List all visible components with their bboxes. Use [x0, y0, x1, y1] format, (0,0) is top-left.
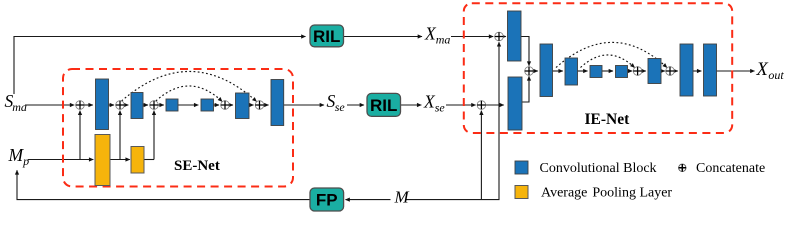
svg-text:RIL: RIL [370, 96, 397, 115]
svg-text:Sse: Sse [327, 91, 346, 114]
svg-text:SE-Net: SE-Net [174, 158, 220, 174]
svg-text:M: M [394, 187, 410, 206]
svg-text:Average Pooling Layer: Average Pooling Layer [541, 186, 672, 201]
svg-text:Concatenate: Concatenate [696, 161, 765, 176]
svg-text:RIL: RIL [313, 27, 340, 46]
svg-text:Convolutional Block: Convolutional Block [540, 161, 657, 176]
svg-text:Xout: Xout [756, 60, 785, 82]
svg-text:FP: FP [316, 191, 338, 210]
svg-text:Mp: Mp [8, 145, 30, 168]
svg-text:Sma: Sma [5, 91, 27, 114]
svg-text:Xma: Xma [424, 23, 450, 46]
svg-text:Xse: Xse [423, 92, 445, 115]
svg-text:IE-Net: IE-Net [585, 111, 631, 128]
